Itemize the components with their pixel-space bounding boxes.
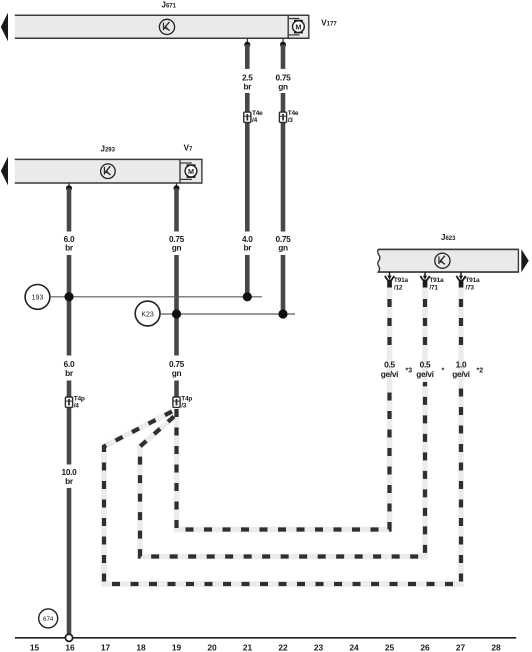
svg-text:ge/vi: ge/vi [416, 369, 433, 379]
svg-text:26: 26 [420, 643, 430, 652]
junction dot track 16 on link [64, 292, 73, 301]
svg-text:V7: V7 [184, 143, 193, 152]
svg-text:M: M [295, 22, 301, 31]
control unit bar J293 [15, 159, 202, 184]
dashed wire U2 base strip (diagonal to track26) [140, 288, 425, 557]
svg-text:0.5: 0.5 [384, 359, 395, 369]
dashed wire U2 dashes lower run [140, 382, 425, 557]
svg-text:/12: /12 [394, 285, 403, 292]
svg-text:*2: *2 [477, 368, 484, 375]
svg-text:*3: *3 [406, 368, 413, 375]
wire 2.5/4.0 br middle segment [245, 93, 250, 232]
svg-text:22: 22 [278, 643, 288, 652]
node dot under J671 track 21 [244, 38, 250, 47]
svg-text:24: 24 [349, 643, 359, 652]
control unit bar J623 [378, 249, 519, 272]
svg-text:br: br [65, 476, 74, 486]
svg-text:23: 23 [314, 643, 324, 652]
svg-text:br: br [243, 82, 252, 92]
svg-text:1.0: 1.0 [456, 359, 467, 369]
svg-text:19: 19 [172, 643, 182, 652]
svg-text:ge/vi: ge/vi [452, 369, 469, 379]
svg-text:M: M [188, 167, 194, 176]
wire 0.75 gn upper segment (track 22) [281, 45, 286, 69]
dashed wire U3 dashes lower run [104, 382, 461, 584]
svg-text:/4: /4 [252, 117, 258, 124]
svg-text:16: 16 [65, 643, 75, 652]
svg-text:/73: /73 [465, 285, 474, 292]
svg-text:17: 17 [101, 643, 111, 652]
node dot under J293 track 16 [66, 183, 72, 191]
svg-text:J671: J671 [162, 0, 177, 9]
wire 10.0 br bottom segment [67, 488, 72, 635]
svg-text:J623: J623 [441, 233, 456, 242]
svg-text:0.5: 0.5 [420, 359, 431, 369]
wire 6.0 br middle segment [67, 255, 72, 356]
svg-text:25: 25 [385, 643, 395, 652]
motor symbol V177 [289, 19, 304, 35]
control unit bar J671 [15, 15, 309, 39]
svg-text:T91a: T91a [465, 277, 480, 284]
svg-text:T4e: T4e [288, 110, 299, 117]
ground terminal circle at rail [65, 634, 72, 641]
wire 0.75 gn middle segment [174, 255, 179, 356]
svg-text:T4p: T4p [181, 396, 192, 403]
svg-text:*: * [442, 368, 445, 375]
dashed wire U1 dashes lower run [177, 382, 390, 530]
relay symbol K inside J623 [435, 253, 450, 268]
wire 6.0 br lower segment [67, 381, 72, 465]
svg-text:18: 18 [136, 643, 146, 652]
svg-text:20: 20 [207, 643, 217, 652]
svg-text:/71: /71 [429, 285, 438, 292]
svg-text:gn: gn [278, 243, 288, 253]
svg-text:/4: /4 [74, 403, 80, 410]
relay symbol K inside J293 [101, 164, 116, 179]
svg-text:gn: gn [172, 368, 182, 378]
wire 4.0 br lower segment [245, 255, 250, 297]
junction dot track 22 on link [278, 309, 287, 318]
svg-text:674: 674 [43, 616, 54, 623]
svg-text:/3: /3 [288, 117, 294, 124]
connector T4e/4 [244, 110, 263, 124]
wire thin link from node K23 [160, 313, 295, 315]
svg-text:T4e: T4e [252, 110, 263, 117]
bottom rail line [15, 637, 516, 639]
wire 0.75 gn lower segment [174, 381, 179, 398]
svg-text:T91a: T91a [394, 277, 409, 284]
wire thin link from node 193 [50, 296, 262, 298]
motor symbol V7 [181, 163, 197, 179]
wire 0.75 gn lower segment [281, 255, 286, 314]
connector T4p/3 [173, 396, 192, 410]
junction dot track 19 on link [172, 309, 181, 318]
terminal T91a/71 at J623 [420, 272, 444, 292]
svg-text:T91a: T91a [429, 277, 444, 284]
svg-text:K23: K23 [141, 311, 154, 318]
svg-text:br: br [65, 368, 74, 378]
node circle 674 [39, 609, 58, 628]
svg-text:28: 28 [491, 643, 501, 652]
node dot under J671 track 22 [280, 38, 286, 47]
svg-text:/3: /3 [181, 403, 187, 410]
wire 0.75 gn upper segment (track 19) [174, 188, 179, 231]
svg-text:gn: gn [172, 243, 182, 253]
dashed wire U1 dashes upper run [387, 288, 391, 353]
relay symbol K inside J671 [159, 19, 174, 34]
terminal T91a/12 at J623 [385, 272, 409, 292]
node dot under J293 track 19 [174, 183, 180, 191]
dashed wire U1 base strip (track19 to track25) [177, 288, 390, 530]
track numbers 15-28 [30, 643, 501, 652]
svg-text:br: br [243, 243, 252, 253]
dashed wire U2 dashes upper run [423, 288, 427, 353]
node circle K23 [135, 301, 160, 326]
junction dot track 21 on link [243, 292, 252, 301]
continuation arrow left of J293 [1, 157, 8, 186]
connector T4e/3 [279, 110, 298, 124]
svg-text:V177: V177 [321, 19, 337, 28]
svg-text:27: 27 [456, 643, 466, 652]
continuation arrow left of J671 [1, 13, 8, 42]
wire 0.75 gn middle segment [281, 93, 286, 232]
continuation arrow right of J623 [521, 249, 528, 272]
terminal T91a/73 at J623 [456, 272, 480, 292]
wire 6.0 br upper segment (track 16) [67, 188, 72, 231]
wire 2.5 br upper segment [245, 45, 250, 69]
connector T4p/4 [65, 396, 84, 410]
dashed wire U3 dashes upper run [459, 288, 463, 353]
svg-text:gn: gn [278, 82, 288, 92]
svg-text:193: 193 [32, 295, 44, 302]
node circle 193 [25, 285, 50, 310]
svg-text:J293: J293 [101, 144, 116, 153]
svg-text:21: 21 [243, 643, 253, 652]
svg-text:T4p: T4p [74, 396, 85, 403]
svg-text:ge/vi: ge/vi [381, 369, 398, 379]
dashed wire U3 base strip (diagonal to track27) [104, 288, 461, 584]
svg-text:br: br [65, 243, 74, 253]
svg-text:15: 15 [30, 643, 40, 652]
